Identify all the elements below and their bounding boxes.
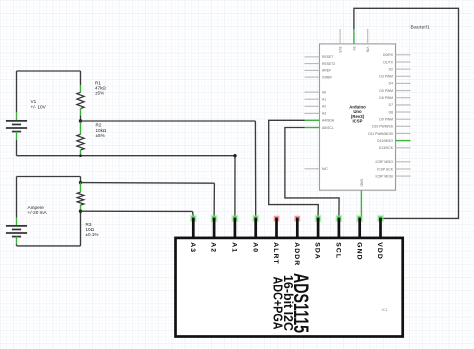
svg-text:GND: GND	[355, 242, 362, 260]
svg-text:A1: A1	[322, 98, 326, 102]
svg-text:D5 PWM: D5 PWM	[379, 89, 393, 93]
svg-text:A2: A2	[210, 242, 217, 253]
svg-text:D8: D8	[389, 110, 393, 114]
svg-text:A0: A0	[322, 90, 326, 94]
svg-text:A2: A2	[322, 105, 326, 109]
svg-text:D10 PWM/SS: D10 PWM/SS	[372, 125, 394, 129]
svg-text:ADDR: ADDR	[293, 242, 300, 266]
svg-text:GND: GND	[359, 179, 363, 187]
svg-text:D1/TX: D1/TX	[383, 60, 393, 64]
svg-text:ICSP MISO: ICSP MISO	[376, 160, 394, 164]
svg-text:+/-20 mA: +/-20 mA	[28, 210, 48, 215]
svg-text:SDA: SDA	[314, 242, 321, 260]
svg-text:ICSP MOSI: ICSP MOSI	[376, 174, 394, 178]
svg-text:D0/RX: D0/RX	[383, 53, 394, 57]
svg-text:IC1: IC1	[382, 307, 389, 312]
svg-text:+/- 10V: +/- 10V	[31, 104, 47, 109]
svg-text:D3 PWM: D3 PWM	[379, 75, 393, 79]
svg-text:RESET: RESET	[322, 55, 333, 59]
svg-text:D9 PWM: D9 PWM	[379, 118, 393, 122]
svg-text:SCL: SCL	[334, 242, 341, 259]
svg-text:A0: A0	[251, 242, 258, 253]
svg-text:±5%: ±5%	[96, 133, 105, 138]
svg-text:D13/SCK: D13/SCK	[379, 146, 394, 150]
svg-text:A4/SDA: A4/SDA	[322, 119, 335, 123]
svg-text:ALRT: ALRT	[272, 242, 279, 265]
svg-text:D11 PWM/MOSI: D11 PWM/MOSI	[368, 132, 393, 136]
svg-text:±5%: ±5%	[95, 91, 104, 96]
svg-text:D7: D7	[389, 103, 393, 107]
svg-text:RESET2: RESET2	[322, 62, 335, 66]
svg-text:5V: 5V	[352, 47, 356, 52]
svg-text:D6 PWM: D6 PWM	[379, 96, 393, 100]
svg-text:IOREF: IOREF	[322, 75, 332, 79]
svg-text:D12/MISO: D12/MISO	[377, 139, 393, 143]
svg-text:±0.1%: ±0.1%	[86, 232, 99, 237]
svg-text:A1: A1	[230, 242, 237, 253]
svg-text:A3: A3	[189, 242, 196, 253]
svg-text:ICSP SCK: ICSP SCK	[377, 167, 394, 171]
svg-text:AREF: AREF	[322, 69, 331, 73]
svg-text:N/C: N/C	[322, 167, 328, 171]
svg-text:A5/SCL: A5/SCL	[322, 126, 334, 130]
svg-text:Bauteil1: Bauteil1	[411, 24, 430, 30]
svg-text:ADC+PGA: ADC+PGA	[271, 277, 285, 330]
svg-text:D4: D4	[389, 82, 393, 86]
svg-text:VDD: VDD	[376, 242, 383, 260]
svg-text:D2: D2	[389, 67, 393, 71]
svg-text:ICSP: ICSP	[352, 118, 362, 123]
svg-text:A3: A3	[322, 112, 326, 116]
svg-text:3V3: 3V3	[338, 47, 342, 53]
svg-text:VIN: VIN	[366, 47, 370, 53]
